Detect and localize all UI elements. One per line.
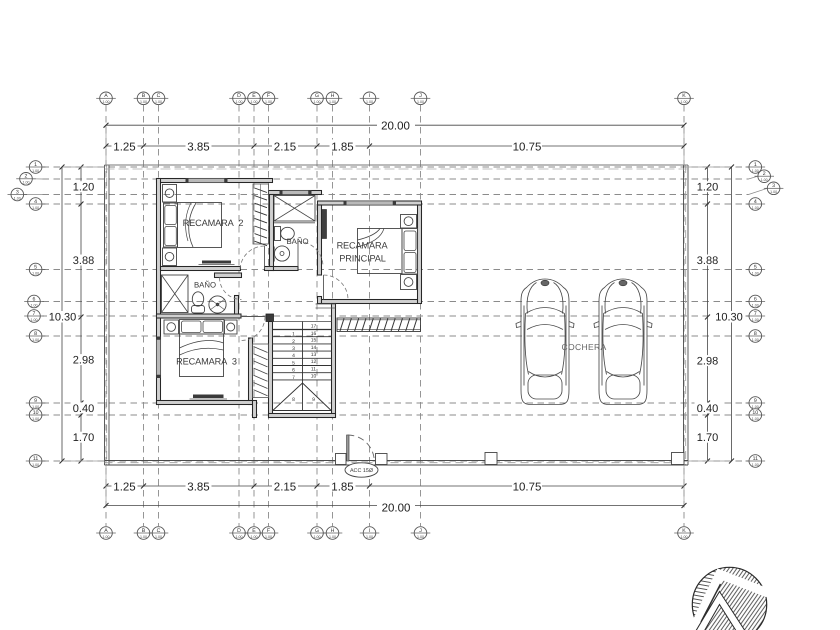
wall principal right [418,205,422,304]
window bath1 north [280,190,312,195]
svg-text:2: 2 [292,339,295,345]
svg-text:2.98: 2.98 [73,355,94,367]
left segment dimension line [71,165,97,464]
svg-text:17: 17 [311,324,317,330]
grid bubble row 9 right [746,397,766,410]
svg-text:RECAMARA 2: RECAMARA 2 [183,218,244,228]
horizontal grid axis lines [43,167,749,461]
rec2 nightstand upper [163,185,177,203]
svg-text:12: 12 [311,359,317,365]
grid bubble row 4 left [26,198,46,211]
post stairs top-left [266,314,274,322]
svg-text:11: 11 [33,456,38,462]
grid bubble J bottom [411,527,431,540]
svg-text:1.00: 1.00 [251,100,258,104]
svg-text:1: 1 [754,162,757,168]
right segment dimension line [695,165,721,464]
wall stairs connector [253,401,257,418]
svg-text:1.00: 1.00 [329,535,336,539]
svg-text:K: K [682,93,686,99]
svg-text:1: 1 [292,332,295,338]
bottom overall dimension line 20.00 [104,465,687,515]
grid bubble row 8 left [26,330,46,343]
principal bed mattress [358,229,403,274]
svg-text:1.85: 1.85 [331,141,353,153]
svg-text:1.00: 1.00 [155,535,162,539]
stairs step numbers [292,324,316,404]
grid bubble A bottom [96,527,116,540]
svg-text:COCHERA: COCHERA [561,342,606,352]
svg-text:K: K [682,528,686,534]
svg-text:7: 7 [33,311,36,317]
wall rec2 top [157,179,273,183]
grid bubble row 11 left [26,455,46,468]
wall rec3 bottom [157,401,253,405]
svg-text:2: 2 [25,174,28,180]
logo circle monogram [686,565,772,630]
svg-text:1.00: 1.00 [417,535,424,539]
grid bubble row 6 right [746,295,766,308]
svg-text:3: 3 [772,183,775,189]
svg-text:5: 5 [34,264,37,270]
entrance door leaf [347,435,349,461]
grid bubble row 7 right [746,310,766,323]
svg-text:BAÑO: BAÑO [194,281,216,290]
svg-text:1.00: 1.00 [314,535,321,539]
svg-text:5: 5 [292,360,295,366]
svg-text:G: G [315,528,319,534]
principal bed headboard and pillows [402,229,418,275]
svg-text:BAÑO: BAÑO [286,237,308,246]
svg-text:3.88: 3.88 [697,255,718,267]
svg-text:PRINCIPAL: PRINCIPAL [339,254,386,264]
lot boundary top line [105,165,689,169]
svg-text:9: 9 [312,397,315,403]
grid bubble D top [229,92,249,105]
grid bubble E top [244,92,264,105]
svg-text:1: 1 [34,162,37,168]
rec3 bed mattress [180,334,224,377]
rec3 nightstand right [225,320,238,334]
wall rec3 top [157,314,242,318]
grid bubble row 4 right [746,198,766,211]
svg-text:6: 6 [754,296,757,302]
svg-text:1.00: 1.00 [32,206,39,210]
svg-text:1.00: 1.00 [329,100,336,104]
svg-text:1.70: 1.70 [697,432,718,444]
grid bubble I top [360,92,380,105]
svg-text:F: F [267,528,270,534]
bath1 toilet [275,227,295,241]
window rec2 north [186,178,228,183]
svg-text:RECAMARA: RECAMARA [337,241,389,251]
wall stairs right [332,304,336,418]
bottom segment dimension line [104,480,687,494]
svg-text:1.00: 1.00 [265,535,272,539]
vertical grid axis lines [106,105,684,526]
svg-text:1.00: 1.00 [140,535,147,539]
svg-text:D: D [237,93,241,99]
corner pillar right [672,453,685,465]
svg-text:10: 10 [311,374,317,380]
svg-text:1.70: 1.70 [73,432,94,444]
svg-text:H: H [331,93,335,99]
svg-text:G: G [315,93,319,99]
svg-text:1.00: 1.00 [752,303,759,307]
svg-text:7: 7 [754,311,757,317]
top segment dimension line [104,140,687,154]
grid bubble K bottom [674,527,694,540]
wall banio2 right stub [235,296,239,317]
svg-text:B: B [142,528,146,534]
grid bubble C bottom [149,527,169,540]
driveway pillar [485,453,497,465]
grid bubble C top [149,92,169,105]
svg-text:1.00: 1.00 [236,535,243,539]
svg-text:1.00: 1.00 [265,100,272,104]
svg-text:1.00: 1.00 [32,417,39,421]
svg-text:10.30: 10.30 [49,312,77,324]
rec2 bench [199,261,235,265]
svg-text:A: A [104,93,108,99]
svg-text:15: 15 [311,338,317,344]
svg-text:1.00: 1.00 [155,100,162,104]
top overall dimension line 20.00 [104,119,687,165]
grid bubble row 10 right [746,409,766,422]
svg-text:ACC 15Ø: ACC 15Ø [350,468,374,474]
svg-text:11: 11 [311,366,316,372]
svg-text:1.00: 1.00 [681,535,688,539]
rec3 nightstand left [164,320,179,334]
svg-text:10.30: 10.30 [715,312,743,324]
svg-text:14: 14 [311,345,317,351]
svg-text:J: J [419,528,422,534]
svg-text:1.00: 1.00 [761,178,768,182]
svg-text:C: C [157,528,161,534]
wall principal left lower stub [318,297,322,304]
svg-text:C: C [157,93,161,99]
svg-text:E: E [252,528,256,534]
grid bubble row 2 right [749,176,758,179]
svg-text:1.00: 1.00 [103,100,110,104]
door banio2 [220,278,242,300]
svg-text:8: 8 [292,397,295,403]
svg-text:0.40: 0.40 [697,403,718,415]
window rec3 west [156,337,161,379]
svg-text:9: 9 [34,398,37,404]
wall rec2 bottom [161,267,241,271]
svg-text:1.00: 1.00 [366,100,373,104]
wall principal bottom [322,300,418,304]
svg-text:1.00: 1.00 [32,271,39,275]
grid bubble B bottom [134,527,154,540]
svg-text:3: 3 [16,189,19,195]
svg-text:1.00: 1.00 [417,100,424,104]
svg-text:1.00: 1.00 [752,463,759,467]
grid bubble row 5 right [746,263,766,276]
door rec3 [241,317,265,341]
door rec2 [240,246,265,270]
svg-text:2.15: 2.15 [274,481,296,493]
svg-text:10.75: 10.75 [513,141,542,153]
bath2 shower [162,275,189,313]
svg-text:1.00: 1.00 [103,535,110,539]
svg-text:1.25: 1.25 [113,481,135,493]
grid bubble A top [96,92,116,105]
grid bubble K top [674,92,694,105]
grid bubble G bottom [307,527,327,540]
closet rec2 (hanging rail) [253,184,269,246]
svg-text:2: 2 [763,171,766,177]
svg-text:E: E [252,93,256,99]
sill corridor-stairs opening [316,304,336,308]
svg-text:1.00: 1.00 [32,169,39,173]
door bath1 [298,242,323,267]
svg-text:4: 4 [754,199,757,205]
svg-text:1.20: 1.20 [697,182,718,194]
svg-text:3.85: 3.85 [187,481,209,493]
svg-text:4: 4 [34,199,37,205]
svg-text:1.00: 1.00 [681,100,688,104]
svg-text:RECAMARA 3: RECAMARA 3 [176,357,237,367]
wall stairs left [269,322,273,418]
svg-text:B: B [142,93,146,99]
svg-text:1.00: 1.00 [32,405,39,409]
svg-text:1.00: 1.00 [752,169,759,173]
svg-text:1.00: 1.00 [752,206,759,210]
principal nightstand lower [401,275,417,290]
grid bubble row 11 right [746,455,766,468]
rec2 bed headboard and pillows [164,203,178,247]
svg-text:0.40: 0.40 [73,403,94,415]
svg-text:1.00: 1.00 [32,463,39,467]
entrance door swing arc [348,435,375,462]
grid bubble G top [307,92,327,105]
svg-text:A: A [104,528,108,534]
svg-text:2.15: 2.15 [274,141,296,153]
svg-text:H: H [331,528,335,534]
rec3 bed headboard and pillows [180,320,225,335]
grid bubble E bottom [244,527,264,540]
wall bath1 top [269,191,322,195]
closet principal (dark wardrobe) [322,210,327,239]
bath2 sink [209,296,226,313]
svg-text:D: D [237,528,241,534]
grid bubble H top [323,92,343,105]
svg-text:10: 10 [33,410,39,416]
svg-text:1.00: 1.00 [32,338,39,342]
svg-text:4: 4 [292,353,295,359]
grid bubble row 2 left [32,178,42,180]
wall bath1 bottom [274,267,299,271]
svg-text:1.00: 1.00 [23,181,30,185]
svg-text:1.00: 1.00 [314,100,321,104]
grid bubble F bottom [259,527,279,540]
wall banio2 inner top [215,273,242,278]
pergola hatched band [337,318,421,332]
window principal north [344,201,397,206]
wall bath1 left [270,195,274,271]
right overall dimension line 10.30 [688,165,745,464]
grid bubble row 3 left [24,194,43,196]
bath1 shower [274,196,315,223]
grid bubble F top [259,92,279,105]
rec3 bench [190,395,228,400]
grid bubble row 1 left [26,161,46,174]
grid bubble row 8 right [746,330,766,343]
svg-text:3: 3 [292,346,295,352]
bath2 toilet [192,292,205,313]
wall stairs bottom [269,414,336,418]
svg-text:I: I [369,528,370,534]
svg-text:6: 6 [33,296,36,302]
svg-text:6: 6 [292,368,295,374]
wall house left [157,179,161,405]
svg-text:2.98: 2.98 [697,356,718,368]
svg-text:20.00: 20.00 [382,503,411,515]
lot boundary bottom wall [105,461,689,466]
car 2 [594,279,652,405]
door principal [324,275,349,300]
svg-text:1.00: 1.00 [752,271,759,275]
svg-text:1.00: 1.00 [752,417,759,421]
grid bubble D bottom [229,527,249,540]
svg-text:1.00: 1.00 [251,535,258,539]
grid bubble row 9 left [26,397,46,410]
grid bubble J top [411,92,431,105]
svg-text:3.85: 3.85 [187,141,209,153]
svg-text:5: 5 [754,264,757,270]
svg-text:3.88: 3.88 [73,255,94,267]
svg-text:1.25: 1.25 [113,141,135,153]
svg-text:1.00: 1.00 [366,535,373,539]
entrance pillar right [376,454,388,465]
svg-text:10.75: 10.75 [513,481,542,493]
bath1 sink [274,246,289,262]
entrance label ACC ellipse [345,463,378,477]
principal nightstand upper [401,215,417,229]
svg-text:1.00: 1.00 [31,318,38,322]
grid bubble B top [134,92,154,105]
closet under-stairs shelves [253,344,269,398]
label RECAMARA PRINCIPAL [337,241,389,264]
wall rec3 right [249,338,253,405]
entrance pillar left [336,454,347,465]
grid bubble row 10 left [26,409,46,422]
svg-text:8: 8 [754,331,757,337]
svg-text:1.00: 1.00 [236,100,243,104]
svg-text:1.00: 1.00 [14,196,21,200]
svg-text:1.20: 1.20 [73,182,94,194]
left overall dimension line 10.30 [47,165,105,464]
svg-text:8: 8 [34,331,37,337]
svg-text:7: 7 [292,375,295,381]
wall rec2 bottom door-jamb piece [265,267,274,271]
grid bubble row 5 left [26,263,46,276]
lot boundary left wall [105,165,110,465]
svg-text:1.00: 1.00 [31,303,38,307]
stairs treads [273,322,332,411]
grid bubble H bottom [323,527,343,540]
svg-text:11: 11 [753,456,758,462]
svg-text:13: 13 [311,352,317,358]
svg-text:10: 10 [752,410,758,416]
svg-text:F: F [267,93,270,99]
svg-text:1.00: 1.00 [752,318,759,322]
lot boundary right wall [684,165,689,465]
wall principal top [318,201,422,205]
stairs break triangle [273,383,331,411]
wall bath1/principal shared upper [318,205,322,275]
grid bubble I bottom [360,527,380,540]
car 1 [516,279,574,405]
grid bubble row 7 left [24,310,44,323]
rec2 nightstand lower [163,248,177,266]
grid bubble row 6 left [24,295,44,308]
svg-text:20.00: 20.00 [381,121,410,133]
svg-text:1.00: 1.00 [752,338,759,342]
svg-text:J: J [419,93,422,99]
svg-text:1.00: 1.00 [752,405,759,409]
svg-text:1.00: 1.00 [140,100,147,104]
svg-text:9: 9 [754,398,757,404]
svg-text:I: I [369,93,370,99]
rec2 bed mattress [178,203,222,248]
svg-text:1.00: 1.00 [770,190,777,194]
svg-text:1.85: 1.85 [331,481,353,493]
grid bubble row 3 right [749,188,768,194]
grid bubble row 1 right [746,161,766,174]
svg-text:16: 16 [311,331,317,337]
